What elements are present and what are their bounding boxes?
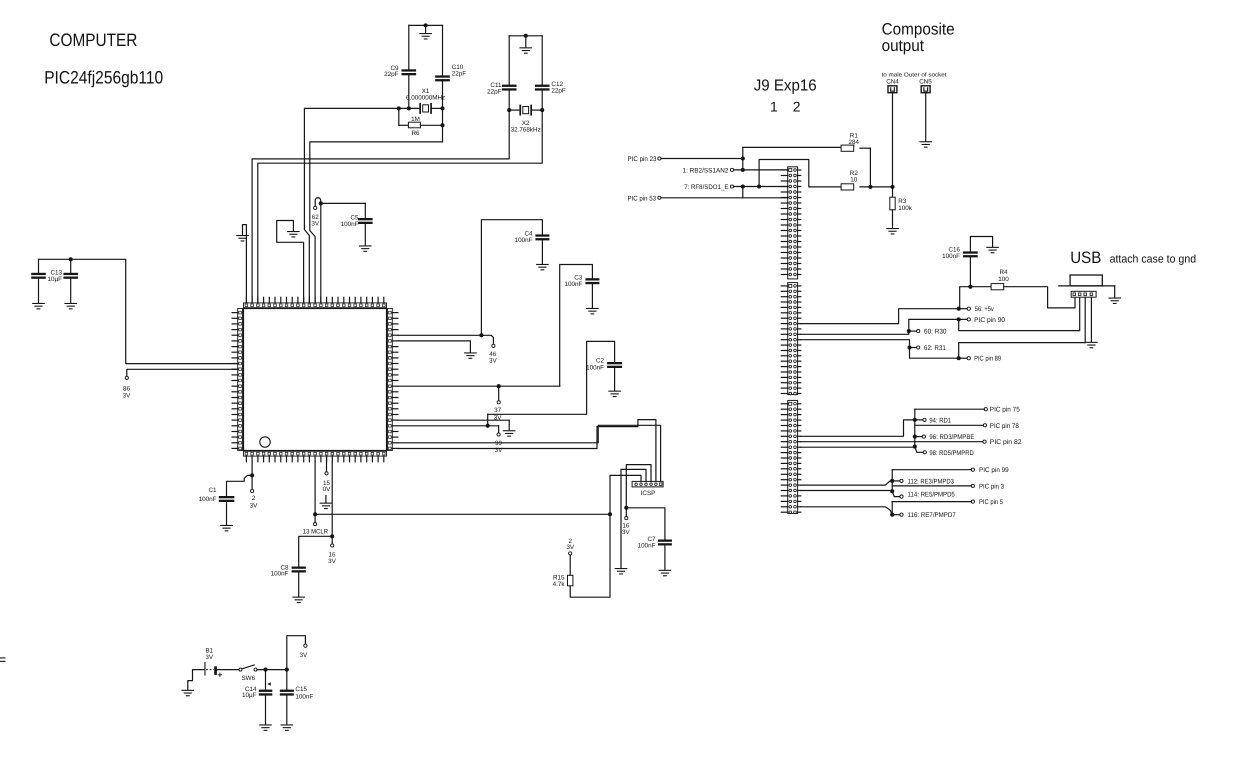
junction node 99 xyxy=(486,424,490,428)
label 2 3V xyxy=(250,495,259,510)
wire +5v node xyxy=(960,287,991,309)
terminal 16 3V ICSP xyxy=(625,508,628,520)
capacitor C8 xyxy=(292,536,333,603)
label C13 10uF xyxy=(48,270,63,284)
ground USB pin4 xyxy=(1085,297,1098,348)
wire header row to 116 xyxy=(801,507,892,515)
label 56: +5v xyxy=(975,306,994,313)
junction X1 right xyxy=(440,106,444,127)
svg-text:attach case to gnd: attach case to gnd xyxy=(1110,254,1197,266)
junction X2 right xyxy=(540,108,544,112)
wire X1 bottom to U1 pin13 top xyxy=(310,108,443,303)
ground X1 top xyxy=(419,25,432,39)
connector J9 section 1 stubs xyxy=(781,170,801,275)
U1 right pad strip xyxy=(388,309,393,451)
junction X1 top rail xyxy=(424,23,428,27)
U1 left pad strip xyxy=(238,309,243,451)
label 16 3V bottom xyxy=(328,552,337,566)
wire X2 right to U1 pin3 top xyxy=(258,110,542,303)
capacitor C1 xyxy=(219,475,252,531)
label C1 100nF xyxy=(199,487,217,503)
label C8 100nF xyxy=(271,564,289,577)
svg-text:PIC pin 90: PIC pin 90 xyxy=(974,317,1005,324)
junction 114 RE5 xyxy=(890,489,903,498)
svg-text:PIC pin 78: PIC pin 78 xyxy=(990,423,1019,430)
svg-text:10: 10 xyxy=(850,176,858,183)
svg-text:100nF: 100nF xyxy=(586,365,604,372)
label C3 100nF xyxy=(564,275,582,288)
ground battery xyxy=(182,670,205,697)
connector J9 section 1 pins xyxy=(789,169,797,276)
capacitor C7 xyxy=(626,508,672,577)
capacitor C12 xyxy=(535,36,550,110)
capacitor C9 xyxy=(402,25,417,108)
svg-text:6.000000MHz: 6.000000MHz xyxy=(406,95,445,102)
label 1: RB2/SS1AN2 xyxy=(683,167,729,174)
ground VDD-node branch xyxy=(503,420,516,437)
label USB xyxy=(1070,249,1101,267)
label PIC pin 53 xyxy=(628,195,657,202)
label PIC pin 82 xyxy=(990,439,1022,446)
label CN5 xyxy=(919,78,932,85)
svg-text:22pF: 22pF xyxy=(384,71,399,78)
label 94: RD1 xyxy=(929,417,951,424)
connector ICSP xyxy=(632,481,663,487)
capacitor C11 xyxy=(502,36,517,110)
svg-text:Composite: Composite xyxy=(882,21,955,39)
U1 top pin leads xyxy=(246,297,383,303)
terminal PIC pin 75 xyxy=(915,408,988,411)
junction 112 RE3 xyxy=(890,479,903,483)
svg-text:PIC pin 23: PIC pin 23 xyxy=(628,156,657,163)
wire 62 to PIC pin 89 node xyxy=(910,348,958,359)
resistor R15 loop xyxy=(568,514,611,597)
wire header 60 row xyxy=(801,331,909,334)
capacitor C16 xyxy=(963,237,999,287)
svg-text:PIC pin 82: PIC pin 82 xyxy=(990,439,1022,446)
capacitor C15 xyxy=(280,670,294,731)
wire header row to RD5 xyxy=(801,446,915,448)
svg-text:100nF: 100nF xyxy=(515,237,533,244)
label R3 100k xyxy=(898,198,913,212)
svg-text:60: R30: 60: R30 xyxy=(924,329,947,336)
junction PIC23 node xyxy=(741,156,745,160)
resistor R3 xyxy=(886,187,899,235)
svg-text:CN4: CN4 xyxy=(886,78,899,85)
terminal 99 3V xyxy=(497,426,500,436)
capacitor C4 xyxy=(481,220,549,336)
terminal 15 0V with ground xyxy=(320,456,333,509)
svg-text:PIC pin 89: PIC pin 89 xyxy=(974,356,1001,363)
label R15 2 3V xyxy=(566,538,575,551)
svg-text:22pF: 22pF xyxy=(487,88,502,95)
svg-text:PIC pin 5: PIC pin 5 xyxy=(979,499,1003,506)
label R4 100 xyxy=(998,269,1009,283)
wire C13 rail to U1 left pin10 xyxy=(39,259,238,363)
capacitor C14 xyxy=(259,670,273,731)
svg-text:32.768kHz: 32.768kHz xyxy=(511,126,541,133)
svg-text:100k: 100k xyxy=(898,205,913,212)
svg-text:1: 1 xyxy=(770,99,778,115)
wire X2 top rail xyxy=(509,35,542,37)
connector CN5 xyxy=(921,86,930,93)
U1 bottom pin leads xyxy=(246,456,383,462)
junction 94 RD1 xyxy=(913,418,926,422)
wire header row to RD1 xyxy=(801,420,913,436)
connector USB pin block xyxy=(1071,291,1096,297)
terminal 13 MCLR xyxy=(314,514,317,525)
label R15 4.7k xyxy=(553,575,566,588)
wire X1 top rail xyxy=(409,24,443,26)
label 96: RD3/PMPBE xyxy=(929,434,974,441)
battery B1 xyxy=(204,662,221,677)
U1 top pad strip xyxy=(244,303,387,308)
junction R2 output xyxy=(868,185,894,189)
wire header 62 row xyxy=(801,340,910,348)
svg-text:PIC pin 53: PIC pin 53 xyxy=(628,195,657,202)
terminal 16 3V xyxy=(331,536,334,547)
junction ICSP 16 3V node xyxy=(624,506,628,510)
wire U1 pin5 right / node 46 xyxy=(398,334,482,336)
terminal PIC pin 23 xyxy=(658,157,743,160)
label attach case to gnd xyxy=(1110,254,1197,266)
wire MCLR to ICSP xyxy=(315,513,610,515)
wire U1 pin14 right / node 37 xyxy=(398,385,560,387)
junction 56 node xyxy=(957,307,971,311)
svg-text:100nF: 100nF xyxy=(341,221,359,228)
connector J9 section 1 body xyxy=(788,167,798,279)
label R2 10 xyxy=(850,170,859,183)
label PIC pin 89 xyxy=(974,356,1001,363)
svg-text:100nF: 100nF xyxy=(564,281,582,288)
terminal 7: RF8/SDO1_E xyxy=(730,185,787,188)
label 60: R30 xyxy=(924,329,947,336)
wire U1 pin21 right xyxy=(398,425,499,427)
terminal 37 3V xyxy=(497,386,500,404)
svg-text:98: RD5/PMPRD: 98: RD5/PMPRD xyxy=(929,450,973,457)
label 99 3V xyxy=(495,440,504,454)
junction MCLR-ICSP xyxy=(608,512,612,516)
wire header row to PIC pin 82 xyxy=(801,440,986,443)
label C7 100nF xyxy=(638,536,656,549)
label PIC pin 90 xyxy=(974,317,1005,324)
title COMPUTER xyxy=(49,30,137,50)
terminal 86 3V xyxy=(125,369,237,379)
label C4 100nF xyxy=(515,231,533,245)
junction X2 top rail xyxy=(524,34,528,38)
wire PIC23 vertical link xyxy=(742,147,744,170)
svg-text:37: 37 xyxy=(494,407,502,414)
svg-text:3V: 3V xyxy=(299,652,308,659)
svg-text:99: 99 xyxy=(495,440,503,447)
label R1 284 xyxy=(849,132,860,146)
junction X2 left xyxy=(507,108,511,112)
label 15 0V xyxy=(323,480,332,493)
svg-text:3V: 3V xyxy=(489,358,498,365)
label to male Outer of socket xyxy=(882,72,947,79)
capacitor C2 xyxy=(488,341,622,425)
svg-text:3V: 3V xyxy=(205,654,214,661)
terminal PIC pin 5 xyxy=(892,500,974,503)
wire U1 pin16 bottom down xyxy=(331,462,333,537)
wire PIC90 to USB pin2 xyxy=(959,297,1080,330)
svg-text:USB: USB xyxy=(1070,249,1101,267)
capacitor C3 xyxy=(560,265,600,387)
connector J9 section 2 body xyxy=(788,283,798,395)
junction PIC pin 89 node xyxy=(957,356,971,360)
wire RF8 over header to R2 xyxy=(759,160,841,187)
wire ICSP pin3 to ground xyxy=(615,469,646,574)
junction 60 node xyxy=(907,329,920,333)
wire RE trunk B xyxy=(891,502,893,515)
U1 left pin leads xyxy=(232,313,238,449)
svg-text:3V: 3V xyxy=(622,529,631,536)
junction PIC pin 90 node xyxy=(957,317,971,321)
label 114: RE5/PMPD5 xyxy=(908,491,955,498)
svg-text:3V: 3V xyxy=(566,544,575,551)
connector USB shell xyxy=(1059,275,1115,286)
label PIC pin 23 xyxy=(628,156,657,163)
switch SW6 xyxy=(217,665,287,671)
label 3V battery rail xyxy=(299,652,308,659)
terminal 2 3V xyxy=(251,475,254,492)
label 86 3V xyxy=(123,386,132,400)
label Composite output xyxy=(882,21,955,55)
connector CN4 xyxy=(888,86,897,93)
junction X1 left xyxy=(397,106,411,110)
junction node 46 xyxy=(479,333,483,337)
junction 98 RD5 xyxy=(913,445,927,454)
ground U1 pin11 staple xyxy=(277,221,304,303)
terminal PIC pin 78 xyxy=(915,424,987,427)
crystal X2 xyxy=(509,105,542,116)
svg-text:COMPUTER: COMPUTER xyxy=(49,30,137,50)
microcontroller U1 PIC24FJ256GB110 body xyxy=(244,309,387,451)
svg-text:94: RD1: 94: RD1 xyxy=(929,417,951,424)
capacitor C10 xyxy=(435,25,450,108)
label PIC pin 5 xyxy=(979,499,1003,506)
label J9 Exp16 xyxy=(754,78,817,95)
resistor R6 xyxy=(399,108,443,127)
wire RF8 down to PIC53 row xyxy=(742,187,744,198)
wire U1 pin13 MCLR down xyxy=(314,462,316,515)
wire header 56 row xyxy=(801,309,957,324)
label 37 3V xyxy=(494,407,503,421)
wire X1 left to U1 pin12 top xyxy=(304,108,398,303)
svg-text:PIC pin 75: PIC pin 75 xyxy=(990,407,1020,414)
svg-text:96: RD3/PMPBE: 96: RD3/PMPBE xyxy=(929,434,974,441)
wire header row to 114 xyxy=(801,490,892,492)
label SW6 xyxy=(241,675,255,682)
svg-text:4.7k: 4.7k xyxy=(553,581,566,588)
label R6 1M xyxy=(411,116,420,137)
label X2 32.768kHz xyxy=(511,120,541,134)
label 98: RD5/PMPRD xyxy=(929,450,973,457)
connector J9 section 2 stubs xyxy=(781,286,801,394)
U1 bottom pad strip xyxy=(244,451,387,456)
ground U1 pin6 right xyxy=(398,341,477,359)
wire U1 pin20 right VDD node xyxy=(398,419,509,421)
label 112: RE3/PMPD3 xyxy=(908,478,954,485)
label CN4 xyxy=(886,78,899,85)
svg-text:22pF: 22pF xyxy=(551,87,566,94)
label PIC pin 78 xyxy=(990,423,1019,430)
junction C13 rail xyxy=(69,257,73,261)
label B1 3V xyxy=(205,648,214,662)
svg-text:112: RE3/PMPD3: 112: RE3/PMPD3 xyxy=(908,478,954,485)
svg-text:100nF: 100nF xyxy=(638,542,656,549)
svg-text:3V: 3V xyxy=(311,221,320,228)
svg-text:13 MCLR: 13 MCLR xyxy=(303,529,329,536)
label X1 6.000000MHz xyxy=(406,88,445,102)
label 116: RE7/PMPD7 xyxy=(908,512,956,519)
svg-text:62: R31: 62: R31 xyxy=(924,345,946,352)
wire U1 pin25 right to ICSP pin5 xyxy=(398,420,656,482)
resistor R4 xyxy=(991,284,1075,308)
terminal PIC pin 53 xyxy=(658,196,788,199)
margin mark xyxy=(0,657,6,661)
svg-text:2: 2 xyxy=(252,495,256,502)
svg-text:3V: 3V xyxy=(250,503,259,510)
wire ICSP pin4 to 16-3V node xyxy=(626,465,651,508)
junction C15 node xyxy=(285,668,289,672)
junction C16 R4 node xyxy=(968,285,972,289)
label PIC pin 99 xyxy=(979,467,1009,474)
label C11 22pF xyxy=(487,82,502,96)
wire RD trunk xyxy=(914,409,916,446)
capacitor C5 xyxy=(321,203,373,252)
label C15 100nF xyxy=(295,686,313,701)
svg-text:3V: 3V xyxy=(123,392,132,399)
label 7: RF8/SDO1_E xyxy=(684,184,729,191)
wire CN4 down xyxy=(892,93,894,187)
ground USB case xyxy=(1108,286,1121,304)
ground CN5 xyxy=(919,93,932,148)
capacitor C13b xyxy=(63,259,78,309)
label 16 3V ICSP xyxy=(622,523,631,537)
svg-text:PIC24fj256gb110: PIC24fj256gb110 xyxy=(44,68,163,88)
terminal 46 3V xyxy=(481,335,495,347)
svg-text:10µF: 10µF xyxy=(48,276,63,283)
junction U1 pin2 bottom node xyxy=(250,462,254,478)
terminal 62 3V xyxy=(314,198,321,210)
wire RE trunk A xyxy=(891,470,893,492)
svg-text:1: RB2/SS1AN2: 1: RB2/SS1AN2 xyxy=(683,167,729,174)
label ICSP xyxy=(641,490,656,497)
svg-text:100nF: 100nF xyxy=(199,496,217,503)
junction 96 RD3 xyxy=(913,435,926,439)
wire 60 to PIC pin 90 node xyxy=(909,319,957,331)
terminal PIC pin 3 xyxy=(892,484,974,487)
svg-text:PIC pin 3: PIC pin 3 xyxy=(979,483,1004,490)
wire C5 node to U1 pin14 top xyxy=(320,203,322,303)
label 62 3V xyxy=(311,214,320,228)
svg-text:100: 100 xyxy=(998,276,1009,283)
junction 62 node xyxy=(907,345,919,349)
connector J9 section 2 pins xyxy=(789,284,797,394)
svg-text:R4: R4 xyxy=(999,269,1008,276)
label C2 100nF xyxy=(586,358,604,372)
svg-text:ICSP: ICSP xyxy=(641,490,656,497)
svg-text:114: RE5/PMPD5: 114: RE5/PMPD5 xyxy=(908,491,955,498)
junction MCLR node xyxy=(313,512,317,516)
svg-text:284: 284 xyxy=(849,139,860,146)
svg-text:0V: 0V xyxy=(323,486,332,493)
ground U1 pin1 top xyxy=(236,225,249,303)
terminal PIC pin 99 xyxy=(892,468,974,471)
ground X2 top xyxy=(520,36,533,54)
resistor R2 xyxy=(841,184,892,190)
junction RB2 node xyxy=(741,168,745,172)
label C16 100nF xyxy=(942,247,960,261)
label C12 22pF xyxy=(551,81,566,94)
svg-text:output: output xyxy=(882,37,925,55)
svg-text:22pF: 22pF xyxy=(452,70,467,77)
label header column numbers 1 2 xyxy=(770,99,801,115)
svg-text:J9 Exp16: J9 Exp16 xyxy=(754,78,817,95)
svg-text:56: +5v: 56: +5v xyxy=(975,306,994,313)
svg-text:100nF: 100nF xyxy=(942,253,960,260)
svg-text:116: RE7/PMPD7: 116: RE7/PMPD7 xyxy=(908,512,956,519)
label 46 3V xyxy=(489,351,498,365)
title PIC24fj256gb110 xyxy=(44,68,163,88)
svg-text:PIC pin 99: PIC pin 99 xyxy=(979,467,1009,474)
junction 16 3V node xyxy=(330,534,334,538)
wire ICSP pin2 to MCLR xyxy=(610,475,641,514)
junction RF8 node xyxy=(741,184,761,188)
label 62: R31 xyxy=(924,345,946,352)
svg-text:10µF: 10µF xyxy=(242,692,257,699)
junction node 37 xyxy=(497,384,501,388)
svg-text:R6: R6 xyxy=(411,130,420,137)
svg-text:C1: C1 xyxy=(208,487,217,494)
junction C14 node xyxy=(263,668,267,672)
label C9 22pF xyxy=(384,65,399,78)
resistor R1 xyxy=(743,145,871,187)
label PIC pin 3 xyxy=(979,483,1004,490)
label PIC pin 75 xyxy=(990,407,1020,414)
label C10 22pF xyxy=(452,64,467,77)
svg-text:CN5: CN5 xyxy=(919,78,932,85)
terminal 1: RB2/SS1AN2 xyxy=(730,168,787,171)
junction 116 RE7 xyxy=(890,513,903,517)
svg-text:2: 2 xyxy=(793,99,801,115)
svg-text:100nF: 100nF xyxy=(295,694,313,701)
wire PIC89 to USB pin3 xyxy=(959,343,1085,359)
wire header row to 112 xyxy=(801,481,892,485)
svg-text:100nF: 100nF xyxy=(271,571,289,578)
svg-text:C15: C15 xyxy=(295,686,307,693)
svg-text:3V: 3V xyxy=(328,558,337,565)
terminal 3V battery rail xyxy=(287,636,307,670)
label C5 100nF xyxy=(341,215,359,229)
connector J9 section 3 pins xyxy=(789,402,797,513)
wire X2 left to U1 pin2 top xyxy=(252,110,509,303)
crystal X1 xyxy=(399,103,443,114)
capacitor C13 xyxy=(31,259,46,309)
label 13 MCLR xyxy=(303,529,329,536)
junction C5 node xyxy=(319,201,323,205)
wire U1 pin24 right to ICSP pin6 xyxy=(398,425,661,481)
connector J9 section 3 stubs xyxy=(781,404,801,512)
svg-text:1M: 1M xyxy=(411,116,420,123)
svg-text:7: RF8/SDO1_E: 7: RF8/SDO1_E xyxy=(684,184,729,191)
U1 right pin leads xyxy=(392,313,398,449)
svg-text:SW6: SW6 xyxy=(241,675,255,682)
connector J9 section 3 body xyxy=(788,400,798,513)
wire USB pin3 down xyxy=(1084,297,1086,342)
label C14 10uF xyxy=(242,686,257,699)
